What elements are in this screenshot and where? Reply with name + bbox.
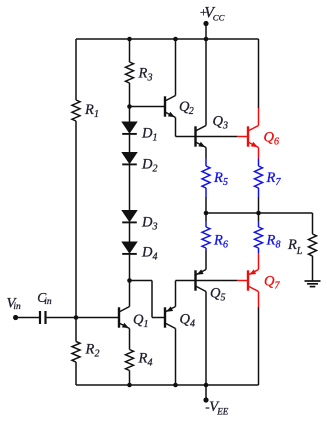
svg-text:1: 1 bbox=[94, 109, 99, 120]
wire R8 bottom lead bbox=[258, 248, 260, 270]
svg-text:5: 5 bbox=[221, 293, 226, 304]
resistor R8 bbox=[255, 227, 281, 251]
wire Cin to Q1 base bbox=[47, 317, 119, 319]
svg-text:Q: Q bbox=[133, 312, 144, 328]
svg-text:R: R bbox=[138, 351, 148, 367]
svg-text:D: D bbox=[141, 126, 153, 142]
wire D3-D4 bbox=[129, 222, 131, 242]
svg-text:7: 7 bbox=[275, 281, 281, 292]
wire R4 bottom lead bbox=[129, 371, 131, 386]
wire R6 top lead blue bbox=[205, 221, 207, 227]
resistor R2 bbox=[72, 342, 99, 363]
wire Q7 base stub red bbox=[237, 280, 248, 282]
wire Q2 collector lead bbox=[175, 39, 177, 96]
svg-text:D: D bbox=[141, 245, 153, 261]
svg-text:4: 4 bbox=[147, 358, 152, 369]
wire Vin to Cin bbox=[16, 317, 39, 319]
wire Q4 collector lead bbox=[175, 329, 177, 386]
node Q2 base junction bbox=[127, 104, 132, 109]
node input junction dot bbox=[74, 315, 79, 320]
svg-text:R: R bbox=[138, 66, 148, 82]
wire junction to D1 bbox=[129, 107, 131, 123]
svg-text:8: 8 bbox=[275, 240, 280, 251]
svg-text:2: 2 bbox=[153, 164, 158, 175]
transistor Q7 bbox=[248, 269, 281, 291]
svg-text:3: 3 bbox=[152, 222, 158, 233]
node A junction bbox=[127, 278, 132, 283]
wire R5 bottom lead bbox=[205, 188, 207, 221]
svg-text:2: 2 bbox=[189, 106, 194, 117]
svg-text:in: in bbox=[44, 297, 52, 307]
svg-text:Q: Q bbox=[264, 274, 275, 290]
wire left rail upper bbox=[75, 39, 77, 100]
wire Q3 emitter lead bbox=[205, 148, 207, 159]
resistor R1 bbox=[72, 100, 99, 121]
wire top supply rail bbox=[76, 38, 259, 40]
svg-text:in: in bbox=[13, 302, 21, 312]
diode D1 bbox=[122, 122, 157, 144]
svg-text:7: 7 bbox=[275, 177, 281, 188]
wire R8 top lead blue bbox=[258, 221, 260, 227]
svg-text:Q: Q bbox=[180, 312, 191, 328]
svg-text:5: 5 bbox=[223, 177, 228, 188]
wire Q3-Q6 base line bbox=[176, 136, 238, 138]
wire bottom supply rail bbox=[76, 384, 259, 386]
svg-text:EE: EE bbox=[216, 406, 228, 416]
wire D2-D3 bbox=[129, 164, 131, 210]
power +VCC terminal bbox=[199, 5, 225, 39]
transistor Q2 bbox=[165, 96, 194, 118]
svg-text:D: D bbox=[141, 157, 153, 173]
wire Q6 emitter lead red bbox=[258, 148, 260, 159]
diode D4 bbox=[122, 242, 157, 263]
wire node A to Q4 base bbox=[130, 281, 166, 318]
diode D2 bbox=[122, 153, 157, 175]
svg-text:6: 6 bbox=[274, 137, 279, 148]
svg-text:D: D bbox=[141, 215, 153, 231]
input Vin terminal bbox=[7, 296, 22, 321]
resistor R5 bbox=[202, 166, 228, 188]
resistor R6 bbox=[202, 227, 228, 251]
svg-text:R: R bbox=[213, 170, 223, 186]
diode D3 bbox=[122, 211, 157, 233]
svg-text:4: 4 bbox=[153, 252, 158, 263]
wire Q7 collector lead bbox=[258, 292, 260, 386]
svg-text:R: R bbox=[266, 233, 276, 249]
wire Q5-Q7 base line bbox=[176, 280, 238, 282]
node bottom-rail junction dots bbox=[127, 383, 208, 388]
transistor Q4 bbox=[165, 306, 195, 329]
wire Q2 emitter lead bbox=[175, 118, 177, 137]
transistor Q1 bbox=[119, 307, 149, 331]
wire Q4 emitter lead bbox=[175, 281, 177, 307]
svg-text:3: 3 bbox=[222, 121, 228, 132]
svg-text:Q: Q bbox=[213, 114, 224, 130]
svg-text:2: 2 bbox=[94, 349, 99, 360]
wire R5 top lead blue bbox=[205, 159, 207, 167]
svg-text:R: R bbox=[213, 233, 223, 249]
node output junction right bbox=[256, 211, 261, 216]
svg-text:R: R bbox=[266, 170, 276, 186]
resistor RL bbox=[287, 234, 317, 257]
wire left rail middle bbox=[75, 121, 77, 342]
wire Q1 emitter lead bbox=[129, 329, 131, 350]
svg-text:R: R bbox=[85, 342, 95, 358]
wire R6 bottom lead bbox=[205, 248, 207, 270]
transistor Q5 bbox=[196, 269, 226, 303]
wire Q2 base bbox=[130, 106, 166, 108]
wire output node bbox=[206, 213, 313, 234]
wire R7 bottom lead bbox=[258, 188, 260, 221]
wire Q6 base stub red bbox=[237, 136, 248, 138]
wire D4 to node A bbox=[129, 254, 131, 281]
resistor R4 bbox=[126, 350, 153, 371]
resistor R3 bbox=[126, 62, 153, 84]
wire node A to Q1 collector bbox=[129, 281, 131, 307]
svg-text:Q: Q bbox=[264, 130, 275, 146]
svg-text:L: L bbox=[296, 246, 303, 257]
node top-rail junction dots bbox=[127, 37, 208, 42]
wire R3 bottom lead bbox=[129, 83, 131, 107]
svg-text:3: 3 bbox=[146, 73, 152, 84]
svg-text:4: 4 bbox=[190, 319, 195, 330]
svg-text:Q: Q bbox=[210, 286, 221, 302]
power -VEE terminal bbox=[203, 385, 228, 416]
svg-text:6: 6 bbox=[223, 240, 228, 251]
wire R7 top lead blue bbox=[258, 159, 260, 167]
wire Q6 collector lead bbox=[258, 39, 260, 126]
svg-text:R: R bbox=[84, 102, 94, 118]
transistor Q6 bbox=[248, 126, 279, 148]
wire Q3 collector lead bbox=[205, 39, 207, 126]
transistor Q3 bbox=[196, 114, 229, 148]
ground bbox=[305, 281, 321, 287]
wire RL bottom lead bbox=[312, 256, 314, 281]
node output junction left bbox=[204, 211, 209, 216]
resistor R7 bbox=[255, 166, 282, 188]
wire R3 top lead bbox=[129, 39, 131, 62]
capacitor Cin bbox=[37, 290, 52, 324]
svg-text:CC: CC bbox=[213, 12, 225, 22]
wire Q5 collector lead bbox=[205, 292, 207, 386]
svg-text:1: 1 bbox=[153, 133, 158, 144]
wire left rail lower bbox=[75, 362, 77, 385]
wire D1-D2 bbox=[129, 134, 131, 153]
svg-text:R: R bbox=[287, 237, 297, 253]
svg-text:1: 1 bbox=[144, 319, 149, 330]
